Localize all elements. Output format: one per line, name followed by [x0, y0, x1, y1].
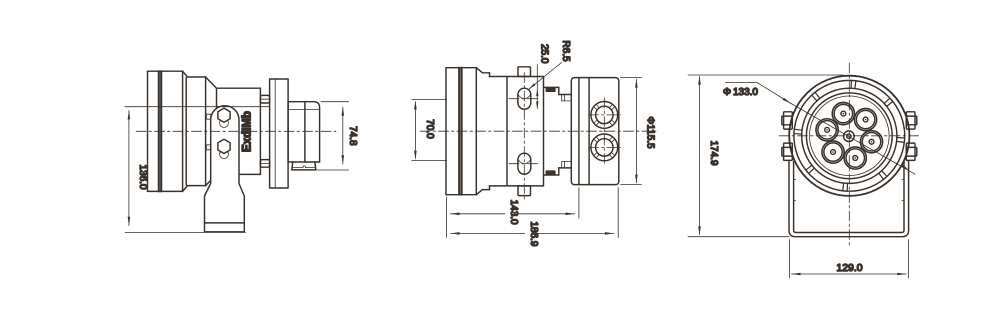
view3 174.9 dimension — [688, 74, 844, 76]
view2 dia 115.5 dimension — [621, 77, 642, 79]
view3 bezel spokes — [794, 80, 905, 191]
view1 bracket arm — [205, 106, 245, 232]
view 1: side view of luminaire — [125, 71, 358, 232]
svg-text:Φ115.5: Φ115.5 — [645, 116, 656, 149]
svg-text:74.8: 74.8 — [347, 126, 358, 146]
view2 slot upper (R6.5) — [518, 88, 531, 109]
view3 glass retaining rings — [806, 93, 892, 179]
view3 side clamp lugs — [784, 112, 793, 129]
view1 head chamfer and mid section — [183, 71, 188, 77]
view1 body tabs — [260, 95, 269, 103]
view1 lamp head front bezel ribs — [147, 71, 149, 191]
view2 gland centerline — [603, 98, 605, 165]
view1 74.8 dimension — [321, 101, 349, 103]
view2 clip tab upper (black) — [546, 87, 555, 91]
view3 bezel outer circle — [789, 76, 909, 196]
view3 window inner circle — [802, 88, 897, 183]
view1 taper to body — [206, 77, 217, 88]
view3 129.0 dimension — [788, 240, 790, 279]
view1 hex bolt lower — [220, 150, 229, 159]
view1 main body — [217, 87, 261, 89]
view2 head ribs — [445, 68, 447, 195]
view1 axis centerline — [136, 130, 336, 132]
view2 rear neck — [544, 86, 559, 88]
view1 mounting flange — [270, 79, 289, 188]
view3 U-bracket — [789, 162, 909, 237]
view2 cable gland lower — [591, 134, 618, 161]
view3 lens 2 — [854, 108, 876, 130]
view2 cable gland upper — [591, 102, 618, 129]
view2 70.0 dimension — [412, 99, 447, 101]
view2 clip tab lower (black) — [546, 171, 555, 175]
view2 186.9 dimension — [617, 188, 619, 238]
view1 hex bolt upper — [220, 119, 229, 128]
view1 junction box — [288, 102, 320, 162]
view2 slot lower — [518, 153, 531, 174]
view2 junction box — [571, 78, 619, 185]
svg-text:143.0: 143.0 — [508, 200, 519, 225]
view3 center hub — [844, 131, 855, 142]
view2 head chamfer/neck — [476, 68, 482, 73]
view2 axis centerline — [420, 130, 656, 132]
view2 plate ears — [518, 67, 531, 77]
svg-text:174.9: 174.9 — [708, 140, 719, 165]
view1 arm side tabs — [206, 114, 210, 119]
view1 junction box feet — [292, 162, 316, 170]
view2 mounting plate — [507, 77, 544, 186]
view2 143.0 dimension — [446, 197, 448, 238]
view3 bezel inner rim — [794, 80, 905, 191]
view2 slot centerline — [523, 73, 525, 200]
view 2: top view — [412, 40, 656, 247]
view3 lens 1 — [832, 102, 854, 124]
svg-text:186.9: 186.9 — [528, 221, 539, 246]
svg-text:ExdIMb: ExdIMb — [242, 111, 254, 152]
view 3: front view — [688, 63, 920, 278]
view3 dia 133.0 leader — [725, 82, 757, 84]
svg-text:70.0: 70.0 — [424, 119, 435, 139]
view1 136.0 dimension — [125, 106, 270, 108]
view3 lens 4 — [844, 147, 866, 169]
svg-text:136.0: 136.0 — [137, 164, 148, 189]
view2 R6.5 leader — [529, 63, 561, 89]
svg-text:R6.5: R6.5 — [560, 40, 571, 62]
view2 25.0 dimension — [536, 65, 538, 109]
view3 lens 5 — [822, 141, 844, 163]
view3 vertical centerline — [848, 63, 850, 246]
view3 lens 6 — [816, 119, 838, 141]
view3 lens 3 — [860, 131, 882, 153]
view2 step section — [559, 94, 572, 96]
view3 horizontal centerline — [779, 135, 920, 137]
svg-text:25.0: 25.0 — [538, 44, 549, 64]
svg-text:129.0: 129.0 — [836, 262, 862, 274]
svg-text:Φ 133.0: Φ 133.0 — [723, 87, 758, 98]
